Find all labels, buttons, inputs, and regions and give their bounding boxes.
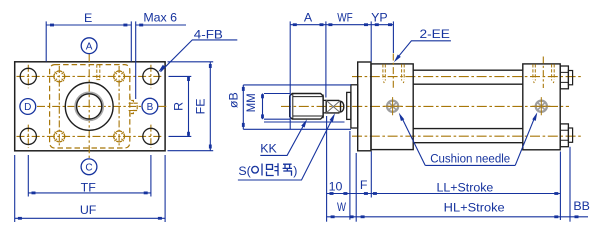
tie rod centerline vertical left (58, 66, 60, 147)
dimension oB (242, 85, 351, 129)
dimension FE (168, 62, 214, 151)
hidden port hole lines top (96, 64, 100, 79)
dimension WF (326, 21, 371, 61)
svg-text:TF: TF (81, 181, 97, 195)
cylinder tube (413, 84, 523, 128)
corner hole centerline vertical top-right (150, 65, 152, 88)
tie rod circle top-left (54, 71, 65, 82)
head port hidden thread lines (383, 64, 404, 80)
svg-text:R: R (171, 102, 185, 111)
svg-text:C: C (85, 162, 92, 173)
rod inner circle (77, 94, 102, 119)
svg-text:YP: YP (371, 10, 388, 24)
svg-text:øB: øB (226, 92, 240, 108)
svg-text:HL+Stroke: HL+Stroke (444, 200, 505, 214)
svg-text:Max 6: Max 6 (143, 11, 177, 25)
svg-text:S(: S( (238, 164, 251, 178)
svg-text:F: F (360, 178, 368, 192)
label Cushion needle with leaders (430, 151, 510, 165)
vertical centerline of flange (88, 54, 90, 159)
svg-text:KK: KK (260, 142, 277, 156)
svg-text:LL+Stroke: LL+Stroke (436, 180, 493, 194)
dimension MM (261, 94, 344, 123)
balloon B (142, 98, 158, 114)
main axis centerline (281, 105, 569, 107)
gland retainer ring (347, 92, 351, 119)
horizontal centerline of flange (right of B circle) (158, 105, 167, 107)
gland flange (head plate) (358, 62, 371, 151)
svg-text:UF: UF (80, 203, 97, 217)
label S (width across flats, Korean) with leader (238, 163, 297, 178)
rod neck (323, 95, 326, 119)
tie rod nut top (560, 66, 572, 89)
head port centerline (392, 54, 394, 89)
tie rod top edge (413, 69, 523, 71)
gland boss (351, 85, 358, 128)
dimension R (169, 76, 192, 136)
tie rod centerline vertical right (118, 66, 120, 147)
SIDE VIEW GROUP (281, 54, 582, 151)
svg-text:WF: WF (337, 10, 353, 24)
label KK with leader (260, 142, 277, 156)
wrench flats boss with X (326, 100, 344, 113)
balloon C (81, 159, 97, 175)
tie rod nut bottom (560, 124, 572, 147)
svg-text:FE: FE (193, 98, 207, 114)
tie rod axis bottom (352, 135, 582, 137)
dimension Max 6 (136, 21, 186, 99)
dimension TF (28, 155, 151, 197)
svg-text:MM: MM (244, 93, 258, 112)
cushion needle screw head (cap side) (532, 97, 550, 115)
bolt-row centerline top (17, 75, 164, 77)
corner hole centerline vertical top-left (27, 65, 29, 88)
horizontal centerline of flange (left of B circle) (37, 105, 142, 107)
dimension F (350, 152, 377, 222)
corner hole centerline vertical bottom-left (27, 125, 29, 148)
hidden body outline (dashed rounded rect) (50, 65, 130, 148)
svg-text:10: 10 (329, 179, 343, 193)
svg-text:B: B (147, 102, 154, 113)
svg-text:2-EE: 2-EE (420, 27, 450, 41)
FRONT VIEW GROUP (15, 38, 167, 175)
dimension YP (371, 21, 393, 53)
head port hidden bottom (384, 82, 405, 84)
dimension HL+Stroke (356, 215, 560, 218)
dimension UF (15, 155, 165, 222)
svg-text:4-FB: 4-FB (194, 27, 223, 41)
hidden port boss right (zigzag) (129, 96, 138, 117)
tie rod circle bottom-left (54, 131, 65, 142)
cap port centerline (542, 57, 544, 89)
bore outer circle (65, 83, 113, 131)
svg-text:D: D (24, 102, 31, 113)
dimension A (290, 21, 326, 129)
tie rod circle top-right (114, 71, 125, 82)
svg-text:W: W (337, 200, 346, 214)
label 2-EE with leader (420, 27, 450, 41)
balloon D (20, 99, 36, 115)
corner hole top-right (143, 68, 159, 84)
corner hole bottom-right (143, 128, 159, 144)
tie rod axis top (352, 76, 582, 78)
cushion needle screw head (head side) (384, 97, 402, 115)
corner hole bottom-left (20, 128, 36, 144)
svg-text:Cushion needle: Cushion needle (430, 151, 510, 165)
bolt-row centerline bottom (17, 135, 164, 137)
dimension BB (560, 147, 588, 222)
rod gray circle (75, 92, 103, 120)
corner hole top-left (20, 68, 36, 84)
corner hole centerline vertical bottom-right (150, 125, 152, 148)
svg-text:A: A (86, 41, 93, 52)
cap port hidden bottom (534, 82, 555, 84)
cap block (523, 64, 560, 150)
svg-text:A: A (304, 10, 313, 24)
label 4-FB with leader (194, 27, 223, 41)
tie rod bottom edge (413, 142, 523, 144)
svg-text:BB: BB (573, 199, 590, 213)
flange plate outline (15, 62, 165, 151)
balloon A (81, 38, 97, 54)
rod end thread body (290, 94, 323, 120)
svg-text:): ) (293, 164, 297, 178)
dimension E (46, 21, 131, 61)
cap port hidden thread lines (533, 64, 554, 80)
dimension 10 (327, 116, 350, 222)
dimension LL+Stroke (371, 152, 560, 221)
head block (371, 64, 413, 150)
dimension W (327, 215, 357, 218)
tie rod circle bottom-right (114, 131, 125, 142)
svg-text:E: E (84, 11, 92, 25)
